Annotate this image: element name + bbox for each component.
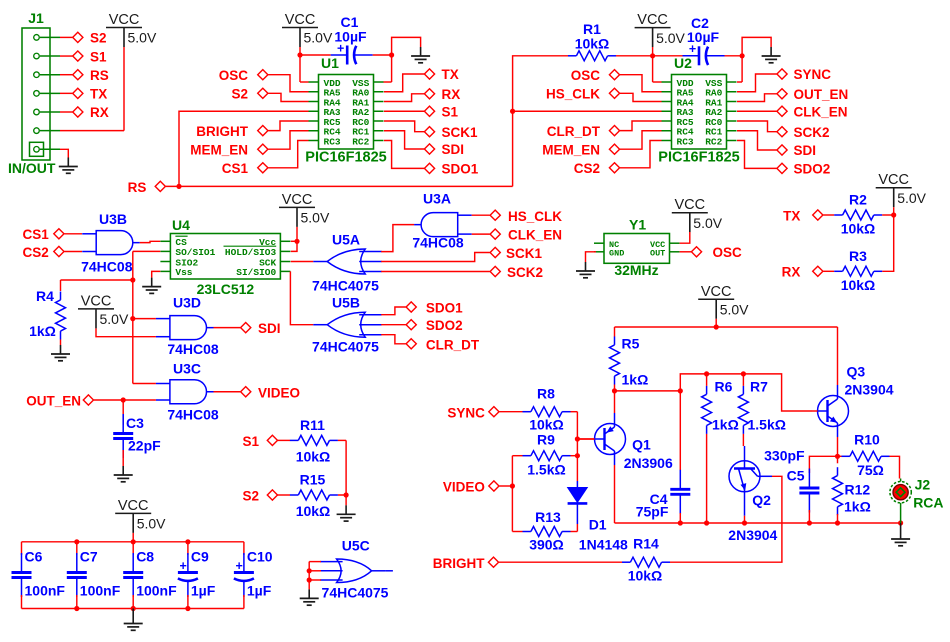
svg-text:C10: C10: [247, 549, 273, 565]
svg-text:SDO1: SDO1: [426, 301, 463, 316]
svg-text:R10: R10: [854, 432, 880, 448]
svg-text:HS_CLK: HS_CLK: [508, 209, 562, 224]
svg-text:74HC4075: 74HC4075: [312, 278, 379, 294]
svg-text:5.0V: 5.0V: [720, 302, 749, 318]
svg-text:OUT_EN: OUT_EN: [794, 87, 849, 102]
svg-text:OSC: OSC: [713, 245, 743, 260]
svg-text:74HC08: 74HC08: [167, 341, 219, 357]
svg-text:IN/OUT: IN/OUT: [8, 160, 56, 176]
svg-text:VCC: VCC: [878, 172, 909, 188]
svg-text:5.0V: 5.0V: [656, 30, 685, 46]
svg-text:R11: R11: [300, 417, 325, 433]
svg-text:HS_CLK: HS_CLK: [546, 87, 600, 102]
svg-text:10kΩ: 10kΩ: [296, 503, 331, 519]
svg-text:10µF: 10µF: [687, 29, 720, 45]
svg-text:10kΩ: 10kΩ: [628, 568, 663, 584]
svg-text:RX: RX: [90, 105, 109, 120]
svg-text:C8: C8: [136, 549, 154, 565]
svg-text:BRIGHT: BRIGHT: [433, 556, 485, 571]
svg-text:1kΩ: 1kΩ: [622, 372, 649, 388]
svg-text:Q2: Q2: [752, 492, 771, 508]
svg-text:100nF: 100nF: [136, 583, 177, 599]
svg-text:VCC: VCC: [637, 12, 668, 28]
svg-text:10kΩ: 10kΩ: [575, 36, 610, 52]
svg-text:2N3906: 2N3906: [624, 455, 673, 471]
svg-text:RS: RS: [128, 180, 147, 195]
svg-text:5.0V: 5.0V: [897, 190, 926, 206]
svg-text:SI/SIO0: SI/SIO0: [236, 267, 276, 278]
svg-text:VIDEO: VIDEO: [258, 385, 300, 400]
svg-text:10kΩ: 10kΩ: [841, 277, 876, 293]
svg-text:RC3: RC3: [324, 136, 341, 147]
svg-text:2N3904: 2N3904: [728, 527, 777, 543]
svg-text:5.0V: 5.0V: [301, 210, 330, 226]
svg-text:BRIGHT: BRIGHT: [196, 124, 248, 139]
svg-text:VIDEO: VIDEO: [443, 480, 485, 495]
svg-text:U3B: U3B: [99, 211, 127, 227]
svg-text:J2: J2: [915, 476, 931, 492]
svg-text:390Ω: 390Ω: [529, 537, 564, 553]
svg-text:74HC4075: 74HC4075: [312, 339, 379, 355]
svg-text:VCC: VCC: [81, 293, 112, 309]
svg-text:S1: S1: [242, 434, 259, 449]
svg-text:SCK2: SCK2: [794, 125, 830, 140]
svg-text:SDI: SDI: [258, 321, 281, 336]
svg-text:R15: R15: [300, 472, 326, 488]
svg-text:+: +: [235, 559, 242, 573]
svg-text:CS1: CS1: [222, 161, 249, 176]
svg-text:23LC512: 23LC512: [197, 281, 255, 297]
svg-text:D1: D1: [589, 517, 607, 533]
svg-text:CS1: CS1: [23, 227, 50, 242]
svg-text:VCC: VCC: [109, 12, 140, 28]
svg-text:5.0V: 5.0V: [128, 30, 157, 46]
svg-text:R4: R4: [36, 288, 54, 304]
svg-text:Vss: Vss: [175, 267, 192, 278]
svg-text:SCK2: SCK2: [507, 265, 543, 280]
svg-text:TX: TX: [442, 67, 459, 82]
svg-text:R2: R2: [849, 192, 867, 208]
svg-text:10kΩ: 10kΩ: [841, 221, 876, 237]
svg-text:1kΩ: 1kΩ: [712, 417, 739, 433]
svg-text:CLK_EN: CLK_EN: [508, 228, 562, 243]
svg-text:5.0V: 5.0V: [137, 516, 166, 532]
svg-text:VCC: VCC: [285, 12, 316, 28]
svg-text:U2: U2: [674, 55, 692, 71]
svg-text:100nF: 100nF: [80, 583, 121, 599]
svg-text:SDO2: SDO2: [794, 162, 831, 177]
svg-text:5.0V: 5.0V: [693, 215, 722, 231]
svg-text:RX: RX: [442, 87, 461, 102]
svg-text:C7: C7: [80, 549, 98, 565]
svg-text:1µF: 1µF: [191, 583, 216, 599]
svg-text:1kΩ: 1kΩ: [29, 323, 56, 339]
svg-text:R5: R5: [622, 336, 640, 352]
svg-text:S1: S1: [442, 104, 459, 119]
svg-text:R9: R9: [537, 432, 555, 448]
svg-text:U3D: U3D: [173, 295, 201, 311]
svg-text:C9: C9: [191, 549, 209, 565]
svg-text:OSC: OSC: [571, 68, 601, 83]
svg-text:2N3904: 2N3904: [845, 382, 894, 398]
svg-text:CLR_DT: CLR_DT: [426, 337, 480, 352]
svg-text:PIC16F1825: PIC16F1825: [658, 150, 739, 166]
svg-text:SYNC: SYNC: [447, 405, 485, 420]
svg-text:PIC16F1825: PIC16F1825: [305, 150, 386, 166]
svg-text:SDO1: SDO1: [442, 162, 479, 177]
svg-text:74HC08: 74HC08: [167, 407, 219, 423]
svg-text:U4: U4: [172, 217, 190, 233]
svg-text:U5C: U5C: [342, 537, 370, 553]
svg-text:10kΩ: 10kΩ: [529, 417, 564, 433]
svg-text:MEM_EN: MEM_EN: [190, 142, 248, 157]
svg-text:SDI: SDI: [794, 143, 817, 158]
svg-text:74HC08: 74HC08: [412, 235, 464, 251]
svg-text:R12: R12: [845, 482, 871, 498]
svg-text:C6: C6: [25, 549, 43, 565]
svg-text:+: +: [179, 559, 186, 573]
svg-text:CS2: CS2: [574, 161, 600, 176]
svg-text:VCC: VCC: [674, 197, 705, 213]
svg-text:74HC4075: 74HC4075: [322, 584, 389, 600]
svg-text:R6: R6: [715, 379, 733, 395]
svg-text:75pF: 75pF: [636, 503, 669, 519]
svg-text:R8: R8: [537, 386, 555, 402]
svg-text:RCA: RCA: [913, 495, 943, 511]
svg-text:TX: TX: [783, 208, 800, 223]
svg-text:Q3: Q3: [847, 364, 866, 380]
svg-text:C3: C3: [126, 415, 144, 431]
svg-text:CLK_EN: CLK_EN: [794, 104, 848, 119]
svg-text:SCK1: SCK1: [506, 246, 543, 261]
svg-text:75Ω: 75Ω: [857, 462, 884, 478]
svg-text:RX: RX: [782, 265, 801, 280]
svg-text:5.0V: 5.0V: [100, 311, 129, 327]
svg-text:10µF: 10µF: [334, 29, 367, 45]
svg-text:5.0V: 5.0V: [304, 30, 333, 46]
svg-text:VCC: VCC: [282, 192, 313, 208]
svg-text:22pF: 22pF: [128, 438, 161, 454]
svg-text:U1: U1: [321, 55, 339, 71]
svg-text:10kΩ: 10kΩ: [296, 449, 331, 465]
svg-text:U3C: U3C: [173, 361, 201, 377]
svg-text:R7: R7: [750, 379, 768, 395]
svg-text:SYNC: SYNC: [794, 67, 832, 82]
svg-text:U5B: U5B: [332, 295, 360, 311]
svg-text:RC3: RC3: [677, 136, 694, 147]
svg-text:R13: R13: [535, 509, 561, 525]
svg-text:GND: GND: [609, 249, 624, 259]
svg-text:1.5kΩ: 1.5kΩ: [748, 417, 786, 433]
svg-text:Q1: Q1: [632, 437, 651, 453]
svg-text:1N4148: 1N4148: [579, 537, 628, 553]
svg-text:SDI: SDI: [442, 142, 465, 157]
svg-text:CS2: CS2: [23, 245, 49, 260]
svg-text:SCK1: SCK1: [442, 125, 479, 140]
svg-text:RS: RS: [90, 68, 109, 83]
svg-text:R14: R14: [633, 536, 659, 552]
svg-text:32MHz: 32MHz: [614, 262, 658, 278]
svg-text:RC2: RC2: [352, 136, 369, 147]
svg-text:SDO2: SDO2: [426, 318, 463, 333]
svg-text:C5: C5: [787, 468, 805, 484]
svg-text:OUT_EN: OUT_EN: [26, 393, 81, 408]
svg-text:VCC: VCC: [118, 498, 149, 514]
svg-text:R3: R3: [849, 248, 867, 264]
svg-text:TX: TX: [90, 87, 107, 102]
svg-text:S2: S2: [231, 87, 248, 102]
svg-text:J1: J1: [28, 10, 44, 26]
svg-text:OSC: OSC: [219, 68, 249, 83]
svg-text:330pF: 330pF: [764, 448, 805, 464]
svg-text:S1: S1: [90, 49, 107, 64]
svg-text:1µF: 1µF: [247, 583, 272, 599]
svg-text:1kΩ: 1kΩ: [844, 498, 871, 514]
svg-text:VCC: VCC: [701, 284, 732, 300]
svg-text:1.5kΩ: 1.5kΩ: [527, 462, 565, 478]
svg-text:Y1: Y1: [629, 217, 646, 233]
svg-text:100nF: 100nF: [25, 583, 66, 599]
svg-text:RC2: RC2: [705, 136, 722, 147]
svg-text:S2: S2: [90, 31, 107, 46]
svg-text:U5A: U5A: [332, 232, 360, 248]
svg-text:74HC08: 74HC08: [81, 259, 133, 275]
svg-text:CLR_DT: CLR_DT: [547, 124, 601, 139]
svg-text:MEM_EN: MEM_EN: [542, 142, 600, 157]
svg-text:U3A: U3A: [423, 191, 451, 207]
svg-text:OUT: OUT: [650, 249, 665, 259]
svg-text:S2: S2: [242, 489, 259, 504]
